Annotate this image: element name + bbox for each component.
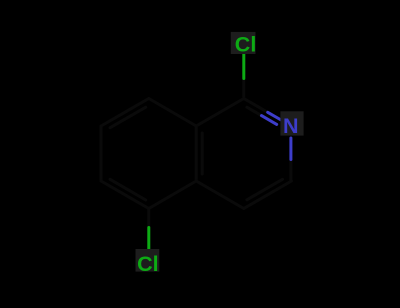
svg-text:Cl: Cl	[235, 33, 256, 57]
svg-text:N: N	[283, 114, 299, 138]
svg-text:Cl: Cl	[137, 252, 159, 276]
